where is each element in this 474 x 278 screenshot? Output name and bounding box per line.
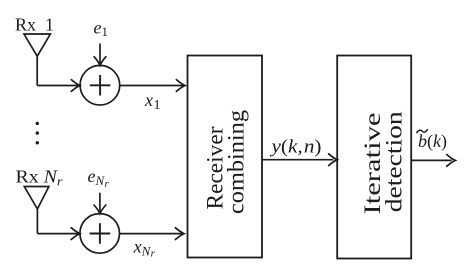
svg-text:y(k,n): y(k,n) xyxy=(269,138,321,158)
antenna Rx Nr xyxy=(24,187,49,234)
wire xNr: adder to receiver combining block xyxy=(120,228,185,240)
adder U1 (summing junction) xyxy=(80,65,120,105)
noise input arrow e1 xyxy=(94,44,106,66)
label Receiver combining (rotated) xyxy=(203,109,249,214)
wire y(k,n): receiver combining to iterative detection xyxy=(262,154,337,166)
antenna Rx 1 xyxy=(24,34,50,86)
svg-text:Rx 1: Rx 1 xyxy=(15,15,54,35)
svg-text:xNr: xNr xyxy=(133,237,156,260)
output wire b(k) xyxy=(411,155,455,167)
svg-text:combining: combining xyxy=(224,109,249,214)
wire antenna 1 to adder xyxy=(37,80,80,92)
svg-text:detection: detection xyxy=(382,111,407,213)
svg-text:Rx Nr: Rx Nr xyxy=(16,167,64,189)
wire x1: adder to receiver combining block xyxy=(120,80,185,92)
label Iterative detection (rotated) xyxy=(360,111,407,215)
vertical ellipsis between antennas xyxy=(36,122,39,145)
block: Receiver combining xyxy=(188,56,263,258)
adder U2 (summing junction) xyxy=(80,214,120,254)
wire antenna Nr to adder xyxy=(37,228,80,240)
svg-text:eNr: eNr xyxy=(88,166,110,190)
noise input arrow eNr xyxy=(94,193,106,214)
svg-text:e1: e1 xyxy=(94,17,109,39)
block: Iterative detection xyxy=(337,56,411,259)
svg-text:b(k): b(k) xyxy=(418,131,447,152)
label b~(k) xyxy=(417,130,447,152)
svg-text:x1: x1 xyxy=(144,90,161,113)
